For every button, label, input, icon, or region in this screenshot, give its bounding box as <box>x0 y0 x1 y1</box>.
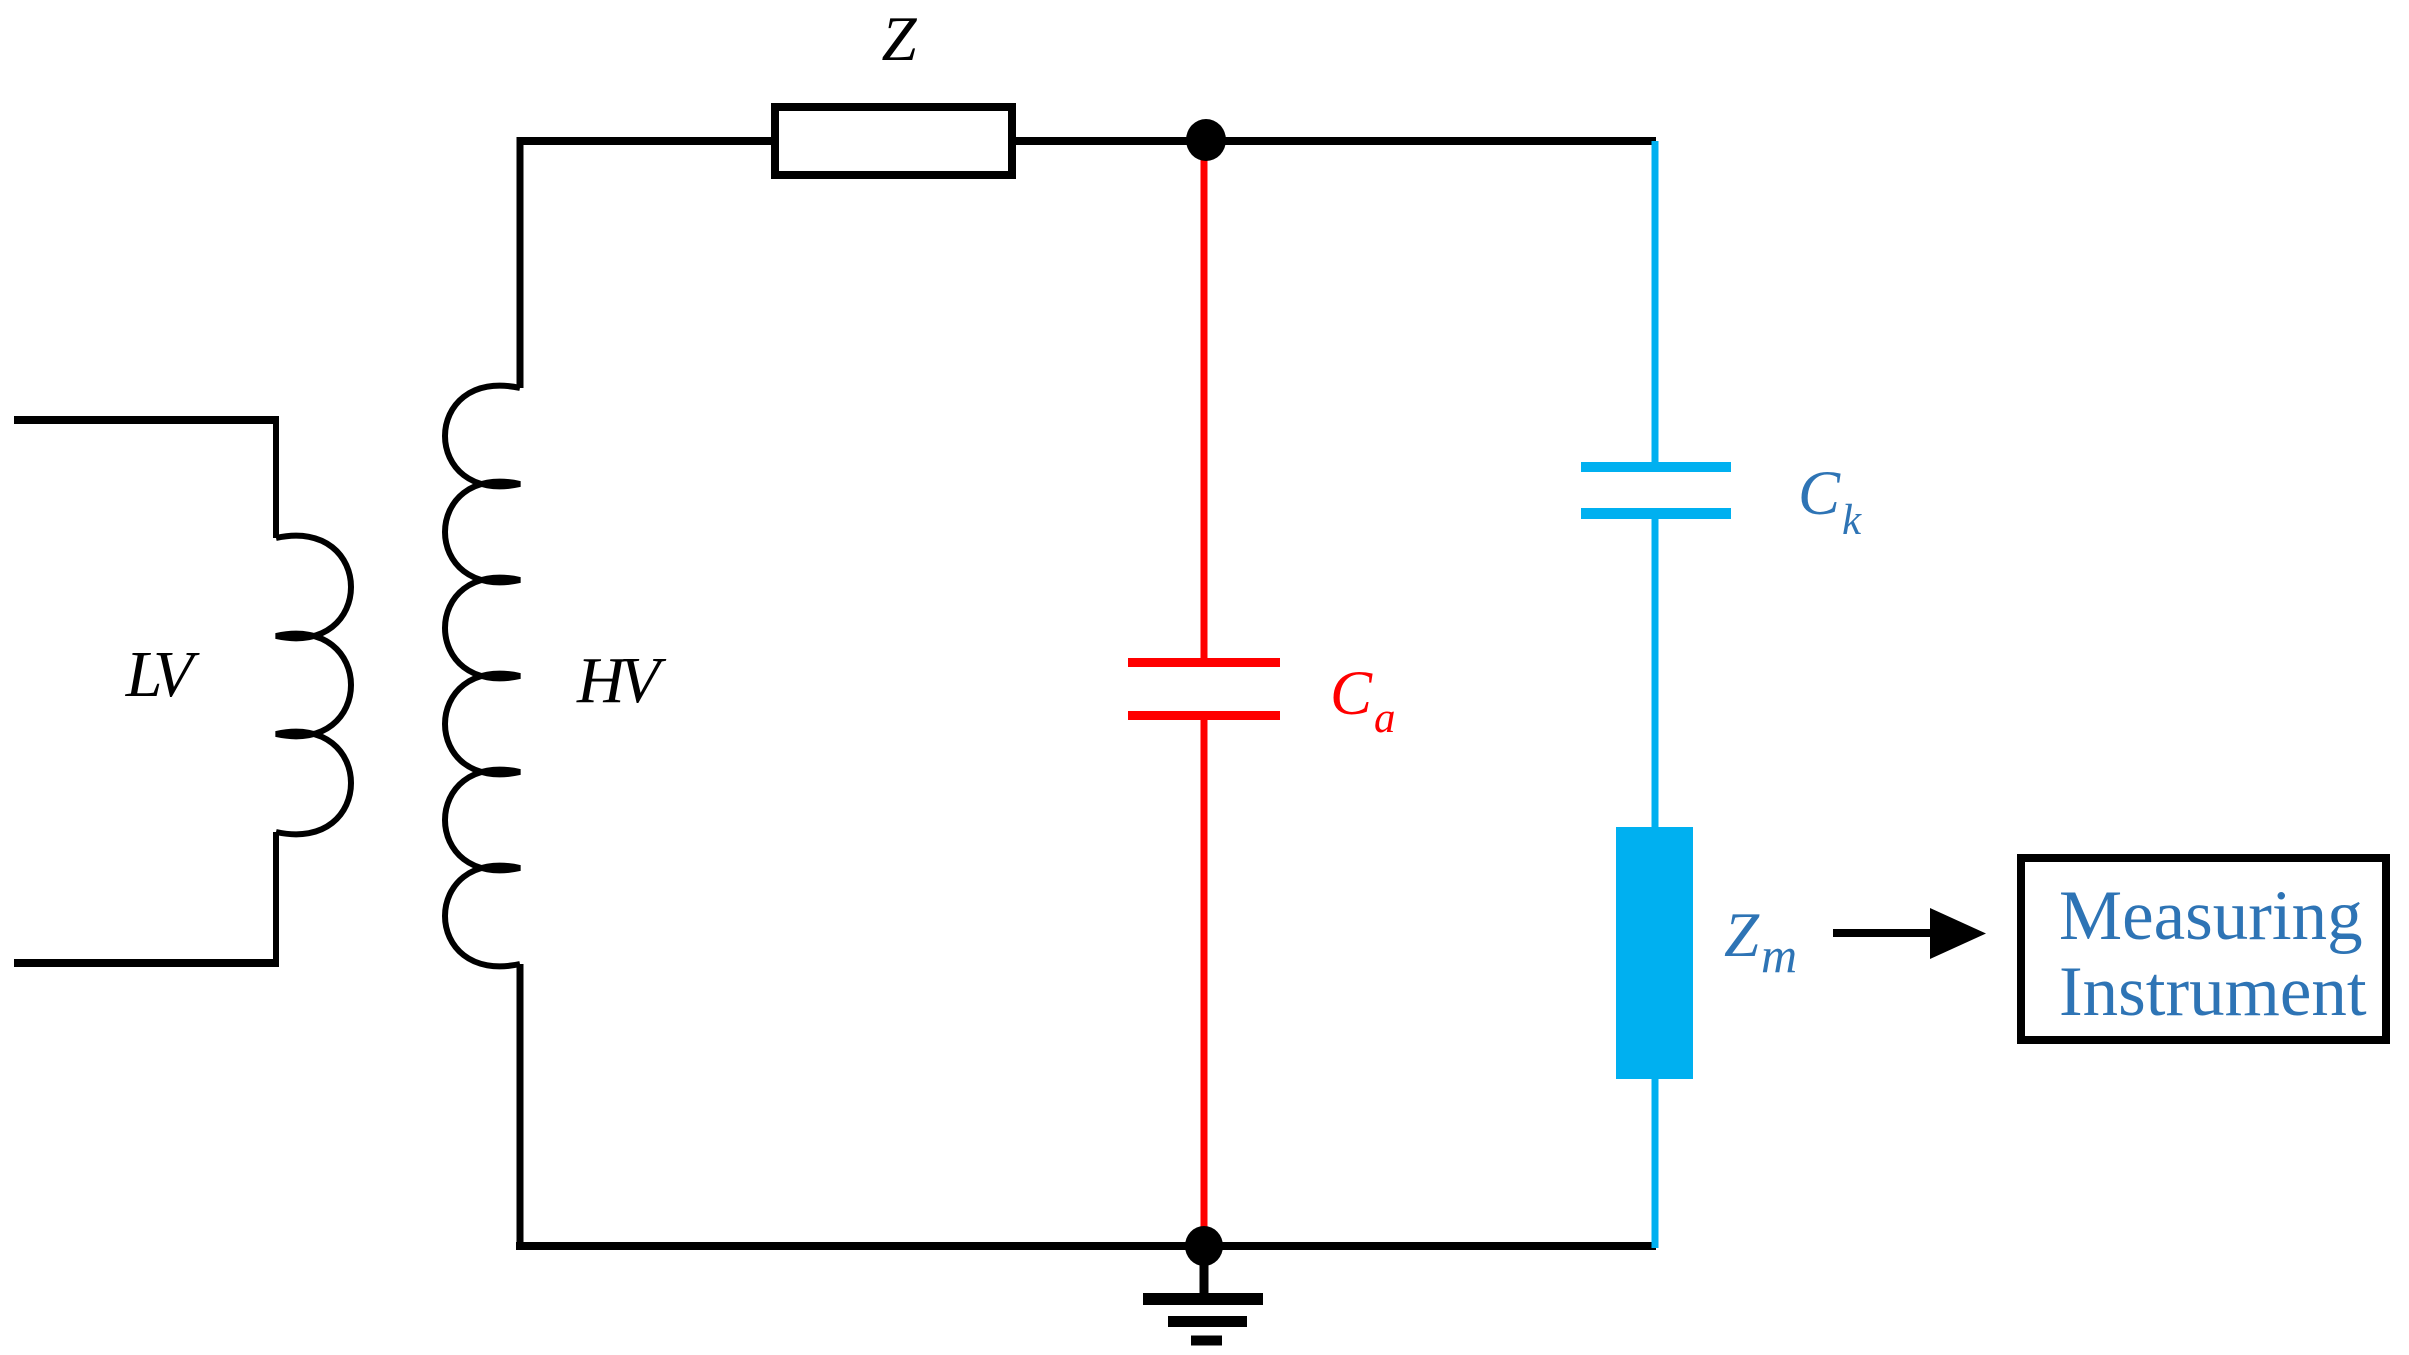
ground bar 3 <box>1191 1336 1222 1346</box>
wire HV vertical lower <box>517 964 524 1250</box>
inductor HV winding <box>445 386 520 967</box>
impedance Zm body <box>1616 827 1693 1079</box>
wire blue upper segment <box>1652 141 1659 467</box>
wire LV left vertical upper <box>273 416 279 538</box>
capacitor Ca top plate <box>1128 658 1280 667</box>
wire HV vertical upper <box>517 137 524 388</box>
wire red upper segment <box>1201 150 1208 662</box>
wire top left segment <box>517 137 771 145</box>
wire red lower segment <box>1201 716 1208 1246</box>
resistor Z <box>775 107 1012 175</box>
wire bottom bus <box>516 1242 1656 1250</box>
wire LV left vertical lower <box>273 832 279 967</box>
node junction top <box>1186 119 1226 161</box>
capacitor Ck top plate <box>1581 462 1731 472</box>
wire top middle segment <box>1016 137 1656 145</box>
wire blue middle segment <box>1652 514 1659 827</box>
arrow to measuring instrument <box>1833 929 1936 937</box>
wire blue lower segment <box>1652 1079 1659 1248</box>
ground bar 1 <box>1143 1293 1263 1305</box>
svg-text:Measuring: Measuring <box>2059 877 2363 955</box>
svg-text:Z: Z <box>881 4 917 74</box>
ground stem <box>1200 1246 1209 1299</box>
capacitor Ck bottom plate <box>1581 508 1731 519</box>
wire LV top lead <box>14 416 276 424</box>
svg-text:HV: HV <box>576 644 667 717</box>
node junction bottom <box>1185 1226 1223 1266</box>
ground bar 2 <box>1168 1316 1247 1327</box>
wire LV bottom lead <box>14 959 279 967</box>
svg-text:Instrument: Instrument <box>2059 953 2367 1031</box>
measuring instrument box <box>2021 858 2386 1040</box>
capacitor Ca bottom plate <box>1128 711 1280 720</box>
inductor LV winding <box>276 536 351 835</box>
